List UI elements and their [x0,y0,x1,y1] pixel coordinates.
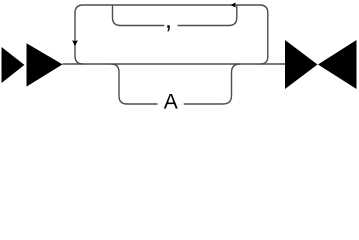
svg-text:,: , [165,4,172,34]
svg-text:A: A [164,91,178,114]
